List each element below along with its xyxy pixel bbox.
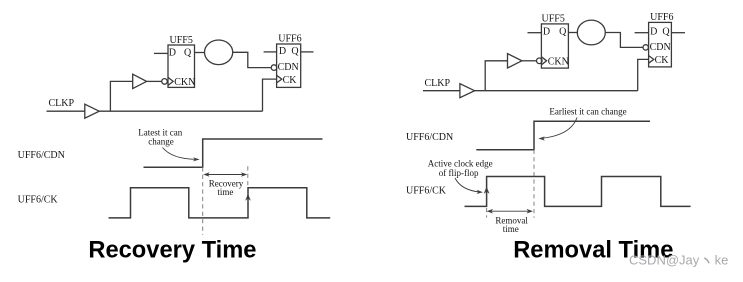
svg-text:CDN: CDN xyxy=(650,42,671,53)
svg-text:UFF6/CK: UFF6/CK xyxy=(18,194,59,205)
wire D input stub of UFF5 (left) xyxy=(154,52,168,54)
flip-flop UFF6 (left) body xyxy=(277,44,301,87)
dashed extension of CK edge (left) xyxy=(247,166,249,187)
wire delay to UFF6 CDN (left) xyxy=(233,52,272,67)
bubble at UFF5 CKN (right) xyxy=(537,58,543,64)
svg-text:UFF5: UFF5 xyxy=(542,13,565,24)
clock wedge at UFF6 CK (left) xyxy=(277,75,282,83)
wire clock net (right) xyxy=(475,90,638,92)
leader arrow to CDN rising edge (left) xyxy=(163,148,197,160)
svg-text:UFF5: UFF5 xyxy=(170,35,193,46)
wire delay to UFF6 CDN (right) xyxy=(605,33,643,48)
wire CLKP input (right) xyxy=(423,90,460,92)
waveform UFF6/CDN (right) xyxy=(476,121,650,150)
svg-text:UFF6: UFF6 xyxy=(650,12,673,23)
wire clock net (left) xyxy=(99,110,262,112)
dashed extension of CDN edge (right) xyxy=(533,150,535,218)
svg-text:Q: Q xyxy=(291,46,299,57)
wire buffer B4 output (right) xyxy=(522,60,537,62)
wire Q output of UFF5 (right) xyxy=(568,32,577,34)
wire CLKP input (left) xyxy=(47,110,85,112)
waveform UFF6/CK (right) xyxy=(465,177,691,207)
clock wedge at UFF5 CKN (left) xyxy=(168,77,173,85)
recovery time span arrow xyxy=(206,174,245,176)
arrowhead on CK active edge (left) xyxy=(245,194,251,201)
svg-text:CDN: CDN xyxy=(278,62,299,73)
svg-text:CKN: CKN xyxy=(548,56,569,67)
arrowhead on CK active edge (right) xyxy=(484,186,490,194)
buffer B1 (left clock buffer) xyxy=(85,104,99,118)
wire D input stub of UFF6 (left) xyxy=(264,51,277,53)
svg-text:UFF6/CDN: UFF6/CDN xyxy=(18,150,65,161)
svg-text:change: change xyxy=(148,136,173,146)
waveform UFF6/CDN (left) xyxy=(144,139,323,167)
svg-text:D: D xyxy=(279,46,286,57)
svg-text:UFF6/CK: UFF6/CK xyxy=(406,186,447,197)
svg-text:Earliest it can change: Earliest it can change xyxy=(549,107,626,117)
svg-text:UFF6/CDN: UFF6/CDN xyxy=(406,132,453,143)
svg-text:of flip-flop: of flip-flop xyxy=(439,168,479,178)
svg-text:Q: Q xyxy=(662,27,670,38)
svg-text:Active clock edge: Active clock edge xyxy=(428,158,493,168)
svg-text:Q: Q xyxy=(559,27,567,38)
clock wedge at UFF6 CK (right) xyxy=(649,56,654,64)
delay element (circle) left xyxy=(205,40,233,65)
svg-text:ke: ke xyxy=(715,253,729,268)
bubble at UFF6 CDN (left) xyxy=(271,65,277,71)
wire D input stub of UFF5 (right) xyxy=(528,32,542,34)
svg-text:CKN: CKN xyxy=(174,77,195,88)
clock wedge at UFF5 CKN (right) xyxy=(541,57,546,65)
svg-text:D: D xyxy=(650,27,657,38)
leader arrow to CDN rising edge (right) xyxy=(542,118,577,139)
flip-flop UFF6 (right) body xyxy=(649,22,672,67)
leader arrow to CK rising edge (right) xyxy=(455,178,480,192)
svg-text:UFF6: UFF6 xyxy=(278,34,301,45)
buffer B3 (right clock buffer) xyxy=(460,84,475,98)
dashed tick below CK rising edge (right) xyxy=(486,208,488,218)
svg-text:CK: CK xyxy=(655,55,670,66)
flip-flop UFF5 (left) body xyxy=(168,45,195,87)
wire Q output stub of UFF6 (right) xyxy=(671,32,685,34)
svg-text:CLKP: CLKP xyxy=(49,98,75,109)
bubble at UFF5 CKN (left) xyxy=(162,79,168,85)
wire branch to upper buffer (right) xyxy=(485,61,507,91)
svg-text:CSDN@Jay: CSDN@Jay xyxy=(629,253,700,268)
flip-flop UFF5 (right) body xyxy=(541,24,568,68)
removal time span arrow xyxy=(489,210,530,212)
delay element (circle) right xyxy=(577,20,605,45)
dashed extension of CDN edge (left) xyxy=(202,167,204,234)
svg-text:Recovery Time: Recovery Time xyxy=(88,237,256,263)
svg-text:time: time xyxy=(217,187,233,197)
wire clock to UFF6 CK (left) xyxy=(263,79,277,111)
buffer B4 (right CKN buffer) xyxy=(508,54,522,68)
wire branch to upper buffer (left) xyxy=(110,81,132,111)
svg-text:CK: CK xyxy=(283,75,298,86)
svg-text:CLKP: CLKP xyxy=(425,78,451,89)
buffer B2 (left CKN buffer) xyxy=(133,74,147,88)
wire Q output stub of UFF6 (left) xyxy=(301,51,314,53)
svg-text:Q: Q xyxy=(184,47,192,58)
svg-text:D: D xyxy=(169,47,176,58)
wire buffer B2 output (left) xyxy=(147,80,162,82)
wire Q output of UFF5 (left) xyxy=(195,52,205,54)
wire D input stub of UFF6 (right) xyxy=(635,32,649,34)
svg-text:D: D xyxy=(543,27,550,38)
wire clock to UFF6 CK (right) xyxy=(638,59,649,90)
waveform UFF6/CK (left) xyxy=(109,188,331,218)
bubble at UFF6 CDN (right) xyxy=(643,45,648,50)
svg-text:time: time xyxy=(503,224,519,234)
